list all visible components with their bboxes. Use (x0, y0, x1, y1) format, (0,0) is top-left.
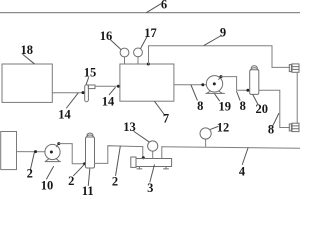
label 19 leader (215, 94, 220, 101)
gauge 13 stem (152, 151, 154, 158)
label 2a leader (30, 153, 34, 171)
nozzle N2 ribbed head (292, 123, 299, 131)
svg-text:2: 2 (68, 174, 74, 188)
label 12 leader (211, 127, 218, 130)
nozzle N1 ribbed head (292, 64, 299, 72)
wire: vessel7 to pump19 (174, 84, 207, 86)
label 8a leader (191, 85, 197, 100)
tank 20 dome (251, 68, 259, 70)
pipe line 4 to right edge (162, 147, 300, 149)
label 16 leader (111, 40, 121, 49)
svg-text:2: 2 (27, 167, 33, 181)
wire: tank18 to valve15 (52, 92, 84, 94)
svg-text:20: 20 (255, 102, 268, 116)
node dot on pump3 inlet (142, 156, 145, 159)
label 4 leader (242, 148, 248, 165)
label 17 leader (141, 37, 147, 48)
pump 3 left foot (137, 167, 142, 169)
label 3 leader (150, 165, 155, 182)
pump 19 base (206, 91, 225, 93)
pump 19 outlet stub (219, 77, 221, 80)
pump 3 motor cap (131, 157, 136, 167)
pump 3 right foot (164, 167, 169, 169)
tank 11 dome (86, 135, 93, 137)
node dot tank20 inlet (246, 89, 249, 92)
nozzle N2 collar (289, 124, 291, 131)
svg-text:3: 3 (147, 181, 153, 195)
svg-text:10: 10 (41, 179, 54, 193)
label 8c leader (273, 113, 279, 125)
pump 10 center dot (50, 151, 53, 154)
label 7 leader (155, 101, 165, 115)
wire: pump19 to tank20 (221, 77, 250, 91)
pump 10 base (45, 159, 60, 162)
riser right of pump3 (161, 147, 163, 159)
svg-text:8: 8 (197, 99, 203, 113)
tank 20 body (250, 70, 259, 95)
node dot tank11 inlet (83, 162, 86, 165)
node dot at vessel7 inlet (117, 85, 120, 88)
svg-text:13: 13 (123, 120, 136, 134)
wire: tank1 to pump10 (17, 151, 46, 153)
node dot before pump19 (201, 83, 204, 86)
pipe line 6 (top full-width duct line) (0, 12, 300, 14)
riser left of pump3 (142, 147, 144, 159)
gauge 16 circle (120, 48, 129, 57)
svg-text:12: 12 (217, 120, 230, 134)
svg-text:6: 6 (161, 0, 167, 12)
pump 19 center dot (213, 82, 216, 85)
wire: nozzle N1 down to nozzle N2 (296, 72, 298, 123)
pump 3 body (136, 159, 172, 167)
pump 10 circle (45, 144, 60, 159)
gauge 13 circle (148, 141, 158, 151)
label 18 leader (23, 55, 35, 64)
node dot on vessel7 top (147, 63, 150, 66)
svg-text:4: 4 (239, 165, 246, 179)
wire: valve15 to vessel7 (95, 85, 120, 87)
valve 15 body (85, 85, 89, 102)
svg-text:16: 16 (100, 29, 113, 43)
gauge 12 circle (200, 128, 211, 139)
svg-text:8: 8 (268, 123, 274, 137)
label 2b leader (74, 165, 85, 176)
tank 1 (1, 132, 17, 170)
pump 19 circle (206, 76, 222, 92)
label 15 leader (86, 78, 88, 85)
node dot on tank18 outlet (82, 91, 85, 94)
svg-text:9: 9 (220, 25, 226, 39)
gauge 17 circle (134, 48, 143, 57)
label 11 leader (88, 169, 90, 186)
node dot pump10 outlet (57, 142, 60, 145)
stem of gauge 16 (124, 57, 126, 64)
nozzle N1 collar (289, 65, 291, 72)
label 8b leader (237, 92, 240, 101)
label 13 leader (134, 132, 149, 142)
label 10 leader (47, 167, 54, 180)
gauge 12 stem (205, 139, 207, 146)
pipe line 9 riser from vessel7 (149, 46, 290, 68)
label 14a leader (67, 93, 79, 108)
vessel 7 (120, 64, 174, 101)
label 20 leader (253, 95, 258, 105)
stem of gauge 17 (137, 57, 139, 64)
tank 11 body (86, 137, 95, 168)
valve 15 handle (88, 85, 95, 89)
label 6 leader (147, 4, 161, 13)
svg-text:15: 15 (84, 65, 97, 79)
node dot on tank1 outlet (34, 150, 37, 153)
label 14b leader (109, 88, 115, 95)
wire: pump10 to tank11 (59, 144, 86, 164)
svg-text:14: 14 (102, 95, 115, 109)
wire: tank20 to nozzle N2 (259, 90, 290, 127)
svg-text:8: 8 (240, 99, 246, 113)
label 9 leader (204, 36, 221, 46)
tank 18 (2, 64, 52, 102)
svg-text:14: 14 (58, 108, 71, 122)
label 2c leader (116, 146, 121, 175)
pump 10 outlet stub (56, 144, 59, 147)
svg-text:7: 7 (163, 111, 169, 125)
wire: tank11 up to line4 (95, 146, 143, 164)
svg-text:18: 18 (20, 43, 33, 57)
svg-text:11: 11 (82, 184, 94, 198)
svg-text:19: 19 (218, 100, 231, 114)
svg-text:2: 2 (112, 175, 118, 189)
node dot pump19 outlet (220, 75, 223, 78)
svg-text:17: 17 (144, 26, 157, 40)
